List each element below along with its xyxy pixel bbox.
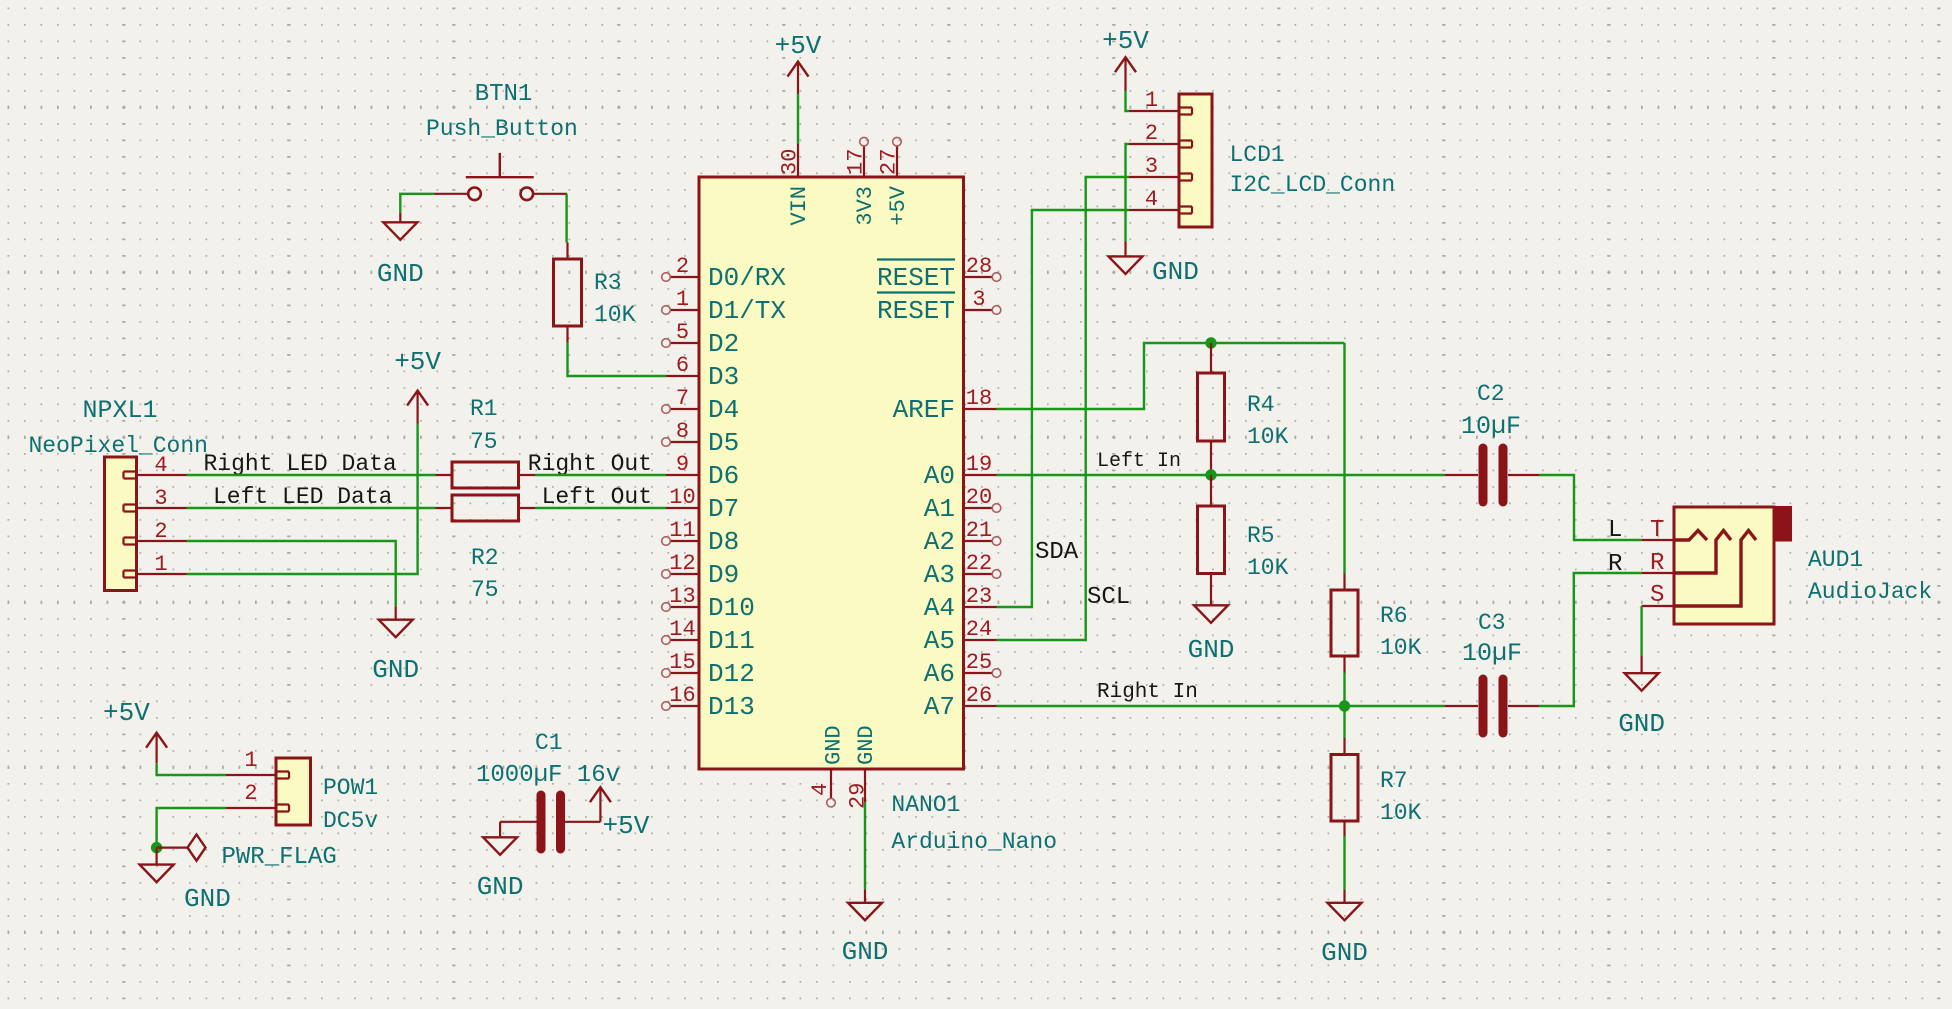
IC U NANO1 Arduino_Nano body <box>699 177 964 769</box>
pin number 25 <box>966 650 992 675</box>
wire BTN1 right to R3 <box>565 194 567 243</box>
svg-text:30: 30 <box>778 149 803 175</box>
pin 10 (D7) of NANO1 <box>666 507 699 509</box>
wire A0 row (Left) <box>997 474 1445 476</box>
svg-text:A2: A2 <box>924 527 955 557</box>
junction at R4 top <box>1205 337 1216 348</box>
wire R1 to D6 <box>535 474 666 476</box>
pin number 3 (LCD1) <box>1145 154 1158 179</box>
label GND (LCD1) <box>1152 257 1199 287</box>
pin 24 (A5) of NANO1 <box>964 639 997 641</box>
label +5V (NPXL1) <box>394 347 441 377</box>
svg-text:29: 29 <box>846 783 871 809</box>
svg-text:2: 2 <box>154 519 167 544</box>
pin 8 (D5) of NANO1 <box>662 438 699 447</box>
pin number 22 <box>966 551 992 576</box>
svg-text:D10: D10 <box>708 593 755 623</box>
svg-text:A1: A1 <box>924 494 955 524</box>
switch BTN1 symbol <box>434 153 567 200</box>
wire POW1 pin2 to GND <box>157 808 226 848</box>
jack tip contact <box>1674 531 1707 541</box>
svg-text:Right In: Right In <box>1097 681 1198 704</box>
pin name A6 <box>924 659 955 689</box>
svg-text:A0: A0 <box>924 461 955 491</box>
svg-text:D4: D4 <box>708 395 739 425</box>
svg-text:22: 22 <box>966 551 992 576</box>
svg-text:4: 4 <box>1145 187 1158 212</box>
pin number 19 <box>966 452 992 477</box>
svg-text:GND: GND <box>184 884 231 914</box>
reference C2 <box>1477 381 1505 407</box>
pin name A1 <box>924 494 955 524</box>
pin 30 (VIN) of NANO1 <box>797 144 799 177</box>
reference AUD1 <box>1808 547 1863 573</box>
pin name D13 <box>708 692 755 722</box>
connector LCD1 body <box>1179 94 1212 227</box>
svg-text:10K: 10K <box>1247 424 1289 450</box>
pin 26 (A7) of NANO1 <box>964 705 997 707</box>
resistor R1 <box>436 462 536 488</box>
wire NPXL1 pin3 to R2 <box>187 507 436 509</box>
pin 20 (A1) of NANO1 <box>964 504 1001 513</box>
svg-text:R: R <box>1650 550 1664 577</box>
pin name D3 <box>708 362 739 392</box>
svg-text:D0/RX: D0/RX <box>708 263 786 293</box>
svg-text:+5V: +5V <box>603 811 650 841</box>
svg-text:LCD1: LCD1 <box>1230 142 1285 168</box>
pin 1 (D1/TX) of NANO1 <box>662 306 699 315</box>
pin name +5V <box>886 185 911 225</box>
svg-text:A7: A7 <box>924 692 955 722</box>
pin number 6 <box>676 353 689 378</box>
label +5V (POW1) <box>103 698 150 728</box>
pin 2 of POW1 <box>226 807 276 809</box>
svg-text:13: 13 <box>669 584 695 609</box>
label 10K (R6) <box>1380 635 1422 661</box>
pin S of AUD1 <box>1642 605 1674 607</box>
svg-text:1: 1 <box>244 748 257 773</box>
svg-text:28: 28 <box>966 254 992 279</box>
value DC5v <box>323 808 378 834</box>
pin number 28 <box>966 254 992 279</box>
pin 25 (A6) of NANO1 <box>964 669 1001 678</box>
capacitor C1 <box>500 795 600 849</box>
label R7 <box>1380 768 1408 794</box>
svg-text:Left LED Data: Left LED Data <box>213 484 393 510</box>
svg-text:27: 27 <box>877 149 902 175</box>
pin number 3 (NPXL1) <box>154 486 167 511</box>
svg-text:14: 14 <box>669 617 695 642</box>
svg-text:Arduino_Nano: Arduino_Nano <box>891 829 1057 855</box>
svg-text:10: 10 <box>669 485 695 510</box>
pin name D7 <box>708 494 739 524</box>
pin 19 (A0) of NANO1 <box>964 474 997 476</box>
label GND (R5) <box>1188 635 1235 665</box>
svg-text:12: 12 <box>669 551 695 576</box>
svg-text:R5: R5 <box>1247 523 1275 549</box>
svg-text:+5V: +5V <box>775 31 822 61</box>
label +5V (C1) <box>603 811 650 841</box>
pin name A7 <box>924 692 955 722</box>
svg-text:R3: R3 <box>594 270 622 296</box>
svg-text:A5: A5 <box>924 626 955 656</box>
svg-text:15: 15 <box>669 650 695 675</box>
label +5V (VIN) <box>775 31 822 61</box>
svg-text:D3: D3 <box>708 362 739 392</box>
svg-text:POW1: POW1 <box>323 775 378 801</box>
svg-text:26: 26 <box>966 683 992 708</box>
label 10K (R5) <box>1247 555 1289 581</box>
pin name GND (pin29) <box>854 725 879 765</box>
reference NPXL1 <box>83 396 158 425</box>
svg-text:+5V: +5V <box>1102 26 1149 56</box>
pin number 1 (LCD1) <box>1145 88 1158 113</box>
svg-text:4: 4 <box>154 453 167 478</box>
pin number 11 <box>669 518 695 543</box>
pin name T <box>1650 517 1664 544</box>
svg-text:SDA: SDA <box>1035 539 1079 566</box>
pin name A0 <box>924 461 955 491</box>
pin 21 (A2) of NANO1 <box>964 537 1001 546</box>
resistor R7 <box>1331 738 1358 836</box>
junction at A0/R4/R5 <box>1205 469 1216 480</box>
pin number 13 <box>669 584 695 609</box>
svg-text:Left Out: Left Out <box>542 484 652 510</box>
svg-text:A6: A6 <box>924 659 955 689</box>
svg-text:GND: GND <box>1188 635 1235 665</box>
pin number 29 <box>846 783 871 809</box>
svg-text:10µF: 10µF <box>1462 639 1522 668</box>
pin number 23 <box>966 584 992 609</box>
svg-text:GND: GND <box>1152 257 1199 287</box>
power +5V at C1 <box>590 787 611 822</box>
pin 14 (D11) of NANO1 <box>662 636 699 645</box>
svg-text:23: 23 <box>966 584 992 609</box>
pin number 24 <box>966 617 992 642</box>
resistor R6 <box>1331 574 1358 673</box>
svg-text:10K: 10K <box>594 302 636 328</box>
reference LCD1 <box>1230 142 1285 168</box>
pin number 1 (NPXL1) <box>154 552 167 577</box>
svg-text:RESET: RESET <box>877 263 955 293</box>
reference POW1 <box>323 775 378 801</box>
junction at A7/R6/R7 <box>1339 700 1350 711</box>
wire AREF to R4/R6 top <box>997 343 1345 409</box>
svg-text:VIN: VIN <box>787 186 812 226</box>
svg-text:Push_Button: Push_Button <box>426 116 578 142</box>
pin name D11 <box>708 626 755 656</box>
wire POW1 pin1 to +5V <box>157 763 226 775</box>
pin name D10 <box>708 593 755 623</box>
capacitor C3 <box>1445 679 1539 733</box>
svg-text:2: 2 <box>1145 121 1158 146</box>
pin number 2 (POW1) <box>244 781 257 806</box>
pin name AREF <box>893 395 955 425</box>
wire R6 to A7 row <box>1343 673 1345 707</box>
value 10uF (C2) <box>1461 412 1521 441</box>
svg-text:L: L <box>1608 517 1622 544</box>
svg-text:1: 1 <box>676 287 689 312</box>
svg-text:Left In: Left In <box>1097 450 1181 473</box>
svg-text:AUD1: AUD1 <box>1808 547 1863 573</box>
pin 16 (D13) of NANO1 <box>662 702 699 711</box>
svg-text:D12: D12 <box>708 659 755 689</box>
pin 1 of LCD1 <box>1129 110 1179 112</box>
pin number 9 <box>676 452 689 477</box>
svg-text:7: 7 <box>676 386 689 411</box>
wire A7 row (Right) <box>997 705 1445 707</box>
net label Left Out <box>542 484 652 510</box>
pin number 26 <box>966 683 992 708</box>
pin number 17 <box>844 149 869 175</box>
pin name D6 <box>708 461 739 491</box>
pin number 8 <box>676 419 689 444</box>
label GND (R7) <box>1321 938 1368 968</box>
svg-text:D11: D11 <box>708 626 755 656</box>
pin name D9 <box>708 560 739 590</box>
resistor R5 <box>1198 475 1225 590</box>
ground at BTN1 <box>383 213 417 240</box>
svg-text:3: 3 <box>972 287 985 312</box>
svg-text:R: R <box>1608 551 1622 578</box>
pin 11 (D8) of NANO1 <box>662 537 699 546</box>
wire LCD1 pin3 to A5 (SCL) <box>997 177 1130 640</box>
svg-text:GND: GND <box>372 655 419 685</box>
pin 23 (A4) of NANO1 <box>964 606 997 608</box>
svg-text:A4: A4 <box>924 593 955 623</box>
svg-text:17: 17 <box>844 149 869 175</box>
power +5V at NPXL1 <box>407 391 428 424</box>
connector POW1 body <box>276 758 311 825</box>
svg-text:1: 1 <box>154 552 167 577</box>
pin number 1 (POW1) <box>244 748 257 773</box>
wire LCD1 pin2 to GND <box>1126 144 1130 242</box>
svg-text:GND: GND <box>822 725 847 765</box>
label R4 <box>1247 392 1275 418</box>
wire top rail down to R6 <box>1343 343 1345 574</box>
ground at NPXL1 pin2 <box>379 606 413 637</box>
svg-text:R4: R4 <box>1247 392 1275 418</box>
pin name A5 <box>924 626 955 656</box>
svg-text:T: T <box>1650 517 1664 544</box>
svg-text:RESET: RESET <box>877 296 955 326</box>
svg-text:GND: GND <box>377 259 424 289</box>
net label Right Out <box>528 451 652 477</box>
label R1 <box>470 396 498 422</box>
svg-text:R2: R2 <box>471 545 499 571</box>
pin 29 (GND) of NANO1 <box>864 769 866 802</box>
value 10uF (C3) <box>1462 639 1522 668</box>
svg-text:R1: R1 <box>470 396 498 422</box>
label GND (BTN1) <box>377 259 424 289</box>
svg-text:C3: C3 <box>1478 610 1506 636</box>
pin T of AUD1 <box>1642 539 1674 541</box>
label 10K (R4) <box>1247 424 1289 450</box>
value I2C_LCD_Conn <box>1230 172 1396 198</box>
svg-text:24: 24 <box>966 617 992 642</box>
svg-text:6: 6 <box>676 353 689 378</box>
net label Left LED Data <box>213 484 393 510</box>
capacitor C2 <box>1445 448 1539 502</box>
svg-text:D1/TX: D1/TX <box>708 296 786 326</box>
pin number 15 <box>669 650 695 675</box>
svg-text:NeoPixel_Conn: NeoPixel_Conn <box>29 433 208 459</box>
pin number 2 (LCD1) <box>1145 121 1158 146</box>
svg-text:+5V: +5V <box>394 347 441 377</box>
pin number 20 <box>966 485 992 510</box>
wire LCD1 pin4 to A4 (SDA) <box>997 210 1130 607</box>
pin 27 (+5V) of NANO1 <box>893 137 902 177</box>
reference BTN1 <box>475 81 533 108</box>
svg-text:AREF: AREF <box>893 395 955 425</box>
net label Right LED Data <box>204 451 397 477</box>
wire A7 junction down to R7 <box>1343 706 1345 738</box>
svg-text:11: 11 <box>669 518 695 543</box>
label 10K (R7) <box>1380 800 1422 826</box>
wire GND from pin 29 <box>864 802 866 889</box>
wire +5V to LCD1 pin1 <box>1126 91 1130 111</box>
value NeoPixel_Conn <box>29 433 208 459</box>
wire NPXL1 pin4 to R1 <box>187 474 436 476</box>
label +5V (LCD1) <box>1102 26 1149 56</box>
svg-text:9: 9 <box>676 452 689 477</box>
svg-text:DC5v: DC5v <box>323 808 378 834</box>
svg-text:D9: D9 <box>708 560 739 590</box>
audio jack AUD1 body <box>1674 506 1792 624</box>
resistor R3 <box>554 243 582 343</box>
wire NPXL1 pin2 to GND <box>187 541 396 606</box>
pin 3 of LCD1 <box>1129 176 1179 178</box>
pin number 7 <box>676 386 689 411</box>
power flag PWR_FLAG <box>157 835 206 861</box>
svg-text:16: 16 <box>669 683 695 708</box>
svg-text:3: 3 <box>1145 154 1158 179</box>
power +5V above NANO1 <box>788 62 809 94</box>
svg-text:S: S <box>1650 582 1664 609</box>
pin number 18 <box>966 386 992 411</box>
pin 15 (D12) of NANO1 <box>662 669 699 678</box>
svg-text:20: 20 <box>966 485 992 510</box>
svg-text:GND: GND <box>842 937 889 967</box>
net label R <box>1608 551 1622 578</box>
label GND (AUD1) <box>1618 709 1665 739</box>
label R2 <box>471 545 499 571</box>
pin 9 (D6) of NANO1 <box>666 474 699 476</box>
svg-text:R7: R7 <box>1380 768 1408 794</box>
ground at C1 <box>483 837 517 855</box>
pin name D5 <box>708 428 739 458</box>
svg-text:3: 3 <box>154 486 167 511</box>
value Push_Button <box>426 116 578 142</box>
ground at R7 <box>1328 889 1362 920</box>
svg-text:I2C_LCD_Conn: I2C_LCD_Conn <box>1230 172 1396 198</box>
pin 4 of LCD1 <box>1129 209 1179 211</box>
label 10K (R3) <box>594 302 636 328</box>
svg-text:C1: C1 <box>535 730 563 756</box>
pin number 30 <box>778 149 803 175</box>
svg-text:2: 2 <box>244 781 257 806</box>
svg-text:GND: GND <box>477 872 524 902</box>
wire C3 to AudioJack R <box>1539 573 1642 706</box>
pin name R <box>1650 550 1664 577</box>
svg-text:19: 19 <box>966 452 992 477</box>
svg-text:NPXL1: NPXL1 <box>83 396 158 425</box>
pin 6 (D3) of NANO1 <box>666 375 699 377</box>
svg-text:D7: D7 <box>708 494 739 524</box>
jack ring contact <box>1674 531 1731 574</box>
svg-text:+5V: +5V <box>103 698 150 728</box>
svg-text:GND: GND <box>1321 938 1368 968</box>
label R5 <box>1247 523 1275 549</box>
label PWR_FLAG <box>222 844 337 871</box>
reference C3 <box>1478 610 1506 636</box>
pin number 12 <box>669 551 695 576</box>
pin name D8 <box>708 527 739 557</box>
svg-text:3V3: 3V3 <box>853 186 878 226</box>
value AudioJack <box>1808 579 1932 605</box>
pin number 27 <box>877 149 902 175</box>
svg-text:D2: D2 <box>708 329 739 359</box>
net label SCL <box>1087 584 1130 611</box>
wire AudioJack S to GND <box>1640 606 1642 655</box>
pin number 2 (NPXL1) <box>154 519 167 544</box>
svg-text:+5V: +5V <box>886 185 911 225</box>
pin number 21 <box>966 518 992 543</box>
pin 5 (D2) of NANO1 <box>662 339 699 348</box>
svg-text:R6: R6 <box>1380 603 1408 629</box>
pin 3 of NPXL1 <box>137 507 187 509</box>
pin name D12 <box>708 659 755 689</box>
pin R of AUD1 <box>1642 572 1674 574</box>
pin number 4 (LCD1) <box>1145 187 1158 212</box>
pin name VIN <box>787 186 812 226</box>
label R3 <box>594 270 622 296</box>
label GND (POW1) <box>184 884 231 914</box>
svg-text:1: 1 <box>1145 88 1158 113</box>
label GND (NANO1) <box>842 937 889 967</box>
pin name A3 <box>924 560 955 590</box>
resistor R4 <box>1198 343 1225 475</box>
net label L <box>1608 517 1622 544</box>
pin number 4 (NPXL1) <box>154 453 167 478</box>
wire R7 to GND <box>1343 836 1345 889</box>
ground at POW1 <box>140 848 174 883</box>
svg-text:10K: 10K <box>1380 800 1422 826</box>
label GND (C1) <box>477 872 524 902</box>
label 75 (R2) <box>471 577 499 603</box>
pin number 3 <box>972 287 985 312</box>
pin 4 (GND) of NANO1 <box>827 769 836 807</box>
net label SDA <box>1035 539 1079 566</box>
wire C1 left to GND <box>499 822 501 838</box>
pin name D2 <box>708 329 739 359</box>
svg-text:Right Out: Right Out <box>528 451 652 477</box>
pin 4 of NPXL1 <box>137 474 187 476</box>
svg-text:BTN1: BTN1 <box>475 81 533 108</box>
svg-text:D6: D6 <box>708 461 739 491</box>
value 1000uF 16v <box>476 762 620 789</box>
svg-text:D8: D8 <box>708 527 739 557</box>
resistor R2 <box>436 495 536 521</box>
svg-text:75: 75 <box>471 577 499 603</box>
wire R2 to D7 <box>535 507 666 509</box>
pin 17 (3V3) of NANO1 <box>860 137 869 177</box>
label 75 (R1) <box>470 429 498 455</box>
wire C2 to AudioJack L <box>1539 475 1642 540</box>
label R6 <box>1380 603 1408 629</box>
pin 2 of LCD1 <box>1129 143 1179 145</box>
pin 1 of NPXL1 <box>137 573 187 575</box>
